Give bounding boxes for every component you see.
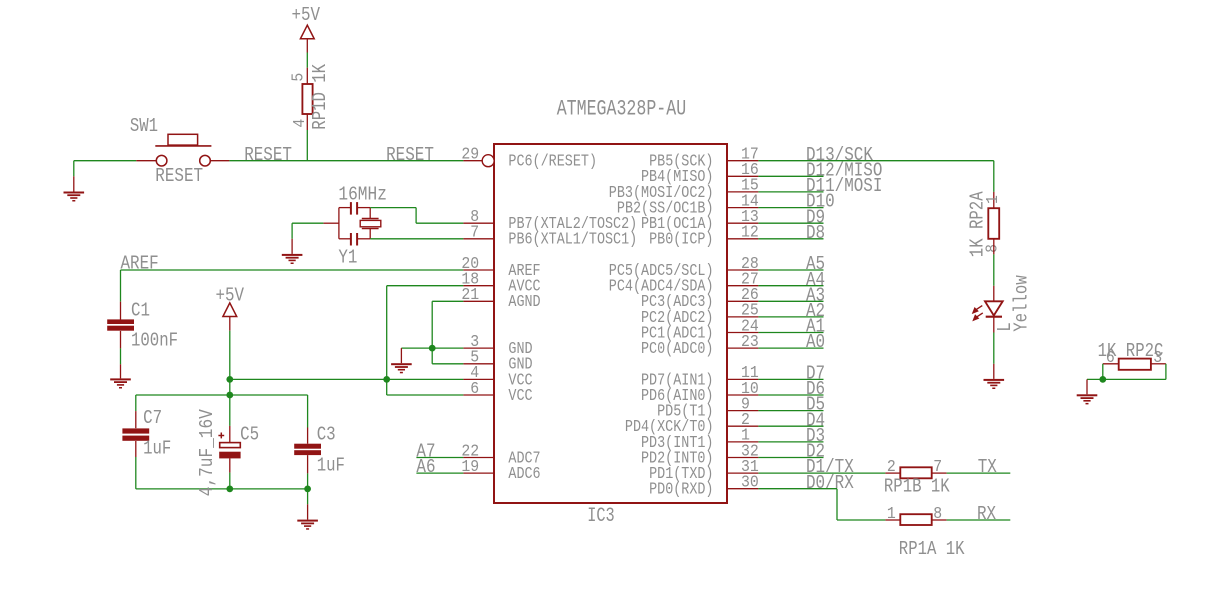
value 1uF (C7) <box>143 437 171 459</box>
ground pin (SW1) <box>73 176 75 191</box>
label RP1D 1K <box>309 63 331 129</box>
svg-text:PC6(/RESET): PC6(/RESET) <box>508 153 597 172</box>
net label D13/SCK <box>806 144 873 166</box>
pin number 5 of RP1D <box>290 73 309 82</box>
crystal Y1 ground stub <box>323 222 339 224</box>
pin name PB5(SCK) <box>649 153 713 172</box>
label ATMEGA328P-AU <box>557 97 687 122</box>
IC3 pin 23 stub (right) <box>727 347 758 349</box>
pin name PD3(INT1) <box>641 434 714 453</box>
junction +5V/cap rail <box>226 392 233 399</box>
pin number 4 <box>470 364 479 383</box>
value 1uF (C3) <box>317 455 345 477</box>
wire D13 corner down to RP2A <box>993 161 995 192</box>
svg-text:RESET: RESET <box>244 144 292 166</box>
svg-text:21: 21 <box>461 286 479 305</box>
wire net D2 <box>758 457 823 459</box>
switch SW1 right pin <box>210 160 229 162</box>
IC3 pin 21 stub (left) <box>463 300 494 302</box>
svg-text:AREF: AREF <box>121 252 159 274</box>
wire down to ground (crystal) <box>291 223 293 239</box>
wire cap-bottom left link <box>339 238 351 240</box>
wire cap-top left link <box>339 207 351 209</box>
wire C5 bottom <box>229 473 231 489</box>
pin number 5 <box>470 349 479 368</box>
resistor RP2A pin 1 stub <box>993 192 995 208</box>
wire crystal mid to ground corner <box>292 222 323 224</box>
svg-text:12: 12 <box>741 224 759 243</box>
net label A7 <box>416 441 435 463</box>
wire net D4 <box>758 425 823 427</box>
label Y1 <box>338 246 357 268</box>
pin name PB3(MOSI/OC2) <box>609 184 714 203</box>
svg-text:23: 23 <box>741 333 759 352</box>
label SW1 <box>130 115 158 137</box>
wire C3 junction to ground <box>307 489 309 504</box>
wire crystal top to corner <box>370 207 416 209</box>
ground pin (C1) <box>120 364 122 378</box>
switch SW1 left pin <box>136 160 156 162</box>
pin name PB1(OC1A) <box>641 215 714 234</box>
label +5V (RP1D) <box>292 4 321 26</box>
svg-text:PD0(RXD): PD0(RXD) <box>649 481 713 500</box>
wire cap bottom rail <box>136 488 308 490</box>
label +5V (VCC) <box>216 284 245 306</box>
label 1K RP2C <box>1098 340 1164 362</box>
net label A1 <box>806 316 825 338</box>
wire AVCC to IC pin 18 <box>387 285 464 287</box>
svg-text:8: 8 <box>933 505 942 524</box>
pin name PC0(ADC0) <box>641 340 714 359</box>
svg-text:D0/RX: D0/RX <box>806 472 854 494</box>
pin name PB6(XTAL1/TOSC1) <box>508 231 637 250</box>
label C7 <box>143 407 162 429</box>
ground pin (crystal) <box>291 239 293 254</box>
pin number 11 <box>741 364 759 383</box>
svg-text:1uF: 1uF <box>317 455 345 477</box>
IC3 pin 30 stub (right) <box>727 488 758 490</box>
net label D3 <box>806 425 825 447</box>
junction AGND/GND <box>429 345 436 352</box>
pin number 3 (RP2C) <box>1153 349 1162 368</box>
wire AREF to IC pin 20 <box>121 269 464 271</box>
svg-text:Y1: Y1 <box>338 246 357 268</box>
LED cathode bar <box>986 316 1002 318</box>
wire to IC pin 8 <box>416 222 463 224</box>
IC3 pin 4 stub (left) <box>463 378 494 380</box>
net label D2 <box>806 441 825 463</box>
svg-text:6: 6 <box>1106 349 1115 368</box>
junction AVCC/VCC rail <box>383 376 390 383</box>
resistor RP2C pin 6 stub <box>1103 363 1119 365</box>
pin number 1 (RP2A) <box>984 195 1003 204</box>
wire net D13/SCK <box>758 160 993 162</box>
svg-text:RESET: RESET <box>155 165 203 187</box>
IC3 pin 20 stub (left) <box>463 269 494 271</box>
net label D0/RX <box>806 472 854 494</box>
pin name PC2(ADC2) <box>641 309 714 328</box>
svg-text:+5V: +5V <box>216 284 245 306</box>
wire AREF corner down to C1 <box>120 270 122 302</box>
pin name PC4(ADC4/SDA) <box>609 278 714 297</box>
wire D0/RX corner down <box>836 489 838 520</box>
IC3 pin 19 stub (left) <box>463 472 494 474</box>
wire RP2C right vertical <box>1165 364 1167 380</box>
pin name PD6(AIN0) <box>641 387 714 406</box>
svg-text:SW1: SW1 <box>130 115 158 137</box>
pin name PB4(MISO) <box>641 168 714 187</box>
wire GND to IC pin 3 <box>401 347 463 349</box>
net label D12/MISO <box>806 159 882 181</box>
pin name PD2(INT0) <box>641 449 714 468</box>
wire A6 to IC pin 19 <box>416 472 463 474</box>
IC3 pin 1 stub (right) <box>727 441 758 443</box>
IC3 pin 29 stub (left) <box>463 160 482 162</box>
wire net A1 <box>758 332 823 334</box>
wire C1 to ground <box>120 348 122 364</box>
IC3 pin 8 stub (left) <box>463 222 494 224</box>
IC3 pin 18 stub (left) <box>463 285 494 287</box>
ground symbol (C3) <box>297 520 318 530</box>
pin name PD4(XCK/T0) <box>625 418 714 437</box>
net label RX <box>977 503 997 525</box>
pin number 20 <box>461 255 479 274</box>
ground symbol (SW1) <box>64 192 85 202</box>
net label D7 <box>806 363 825 385</box>
label C1 <box>131 299 150 321</box>
svg-text:30: 30 <box>741 474 759 493</box>
svg-text:16MHz: 16MHz <box>338 184 387 206</box>
wire RX row to RP1A <box>837 519 885 521</box>
net label D11/MOSI <box>806 175 882 197</box>
svg-text:1K RP2A: 1K RP2A <box>966 191 988 257</box>
IC3 pin 2 stub (right) <box>727 425 758 427</box>
wire net D6 <box>758 394 823 396</box>
IC3 pin 22 stub (left) <box>463 457 494 459</box>
IC3 pin 3 stub (left) <box>463 347 494 349</box>
ground pin (LED) <box>993 364 995 379</box>
pin number 30 <box>741 474 759 493</box>
wire SW1 to ground corner <box>74 160 136 162</box>
svg-text:1uF: 1uF <box>143 437 171 459</box>
crystal Y1 top lead <box>369 208 371 219</box>
LED arrows <box>973 306 983 321</box>
crystal Y1 bottom lead <box>369 229 371 239</box>
wire down to ground (SW1) <box>73 161 75 177</box>
net label TX <box>978 456 998 478</box>
resistor RP1A pin 8 stub <box>932 519 947 521</box>
pin name PC1(ADC1) <box>641 324 714 343</box>
resistor RP1B body <box>900 467 931 478</box>
svg-text:6: 6 <box>470 380 479 399</box>
pin name PD5(T1) <box>657 403 713 422</box>
IC3 pin 10 stub (right) <box>727 394 758 396</box>
label C5 <box>240 424 259 446</box>
wire RP2C left vertical <box>1102 364 1104 380</box>
IC3 pin 12 stub (right) <box>727 238 758 240</box>
junction C5 bottom <box>226 486 233 493</box>
resistor RP1A pin 1 stub <box>885 519 900 521</box>
junction C3 bottom <box>304 486 311 493</box>
pin name GND <box>508 340 532 359</box>
svg-text:+5V: +5V <box>292 4 321 26</box>
label IC3 <box>587 505 615 528</box>
pin number 32 <box>741 442 759 461</box>
pin number 15 <box>741 177 759 196</box>
capacitor C1 bottom pin <box>120 331 122 349</box>
wire net D12/MISO <box>758 175 823 177</box>
svg-text:D8: D8 <box>806 222 825 244</box>
pin name PC3(ADC3) <box>641 293 714 312</box>
wire AGND vertical <box>431 301 433 364</box>
value 100nF <box>131 329 178 351</box>
pin number 9 <box>741 395 750 414</box>
wire AVCC vertical <box>386 286 388 395</box>
ground pin (RP2C) <box>1086 379 1088 394</box>
net label A3 <box>806 284 825 306</box>
net label D1/TX <box>806 456 854 478</box>
wire C3 top drop <box>307 395 309 428</box>
svg-text:AGND: AGND <box>508 293 540 312</box>
pin number 2 <box>741 411 750 430</box>
svg-text:RESET: RESET <box>386 144 434 166</box>
crystal left bus vertical <box>338 208 340 239</box>
svg-text:RP1D 1K: RP1D 1K <box>309 63 331 129</box>
pin number 2 (RP1B) <box>887 458 896 477</box>
net label D4 <box>806 409 825 431</box>
svg-text:RX: RX <box>977 503 997 525</box>
resistor RP2A pin 8 stub <box>993 239 995 255</box>
svg-text:7: 7 <box>933 458 942 477</box>
pin number 25 <box>741 302 759 321</box>
wire crystal bottom to IC pin 7 <box>370 238 463 240</box>
label RESET (SW1 value) <box>155 165 203 187</box>
capacitor C3 <box>294 444 321 455</box>
svg-text:29: 29 <box>461 146 479 165</box>
pin number 22 <box>461 442 479 461</box>
svg-text:2: 2 <box>887 458 896 477</box>
pin number 31 <box>741 458 759 477</box>
LED cathode pin <box>993 317 995 333</box>
ground symbol (C1) <box>110 378 131 388</box>
svg-text:PC0(ADC0): PC0(ADC0) <box>641 340 714 359</box>
pin number 1 (RP1A) <box>887 505 896 524</box>
IC3 pin 5 stub (left) <box>463 363 494 365</box>
label RP1A 1K <box>899 538 965 560</box>
pin number 29 <box>461 146 479 165</box>
resistor RP1A body <box>900 514 931 525</box>
pin number 24 <box>741 317 759 336</box>
net label A4 <box>806 269 825 291</box>
svg-text:IC3: IC3 <box>587 505 615 528</box>
capacitor C7 top pin <box>135 411 137 428</box>
capacitor C5 top pin <box>229 426 231 443</box>
junction +5V/VCC rail <box>226 376 233 383</box>
wire net D8 <box>758 238 823 240</box>
resistor RP1B pin 2 stub <box>885 472 900 474</box>
pin number 28 <box>741 255 759 274</box>
svg-text:RP1A 1K: RP1A 1K <box>899 538 965 560</box>
wire RESET net to IC pin 29 <box>229 160 463 162</box>
wire TX net <box>947 472 1011 474</box>
switch SW1 actuator <box>155 134 211 146</box>
pin number 12 <box>741 224 759 243</box>
resistor RP1D pin 4 stub <box>306 114 308 130</box>
wire net A0 <box>758 347 823 349</box>
pin name ADC7 <box>508 449 540 468</box>
svg-text:7: 7 <box>470 224 479 243</box>
resistor RP1B pin 7 stub <box>932 472 947 474</box>
svg-text:C5: C5 <box>240 424 259 446</box>
net label D10 <box>806 191 835 213</box>
LED L (Yellow) triangle <box>985 301 1003 315</box>
svg-text:C3: C3 <box>317 424 336 446</box>
svg-text:4,7uF_16V: 4,7uF_16V <box>196 409 218 497</box>
svg-text:ADC6: ADC6 <box>508 465 540 484</box>
wire net D1/TX <box>758 472 885 474</box>
IC3 pin 24 stub (right) <box>727 332 758 334</box>
pin number 6 <box>470 380 479 399</box>
pin number 14 <box>741 192 759 211</box>
wire RP2A to LED <box>993 254 995 285</box>
IC3 pin 14 stub (right) <box>727 207 758 209</box>
IC3 pin 25 stub (right) <box>727 316 758 318</box>
wire cap-bottom right link <box>357 238 370 240</box>
svg-text:C7: C7 <box>143 407 162 429</box>
pin name PC6(/RESET) <box>508 153 597 172</box>
svg-text:3: 3 <box>1153 349 1162 368</box>
wire net D3 <box>758 441 823 443</box>
svg-text:A0: A0 <box>806 331 825 353</box>
pin number 26 <box>741 286 759 305</box>
net label RESET (left) <box>244 144 292 166</box>
pin name VCC <box>508 387 532 406</box>
pin number 8 (RP1A) <box>933 505 942 524</box>
net label A0 <box>806 331 825 353</box>
wire GND to IC pin 5 <box>432 363 463 365</box>
load capacitor top (plates) <box>351 202 357 215</box>
pin name PD7(AIN1) <box>641 371 714 390</box>
IC3 pin 15 stub (right) <box>727 191 758 193</box>
wire AGND to IC pin 21 <box>432 300 463 302</box>
svg-text:C1: C1 <box>131 299 150 321</box>
pin name PB0(ICP) <box>649 231 713 250</box>
pin number 6 (RP2C) <box>1106 349 1115 368</box>
ground symbol (LED) <box>984 379 1005 389</box>
label C3 <box>317 424 336 446</box>
pin name PD0(RXD) <box>649 481 713 500</box>
svg-text:1: 1 <box>887 505 896 524</box>
IC3 pin 17 stub (right) <box>727 160 758 162</box>
IC3 pin 6 stub (left) <box>463 394 494 396</box>
wire RP2C bottom rail <box>1087 378 1166 380</box>
pin name PB7(XTAL2/TOSC2) <box>508 215 637 234</box>
net label A2 <box>806 300 825 322</box>
pin number 10 <box>741 380 759 399</box>
pin name AREF <box>508 262 540 281</box>
pin name PD1(TXD) <box>649 465 713 484</box>
resistor RP2C pin 3 stub <box>1151 363 1166 365</box>
wire C3 bottom <box>307 473 309 489</box>
IC3 pin 31 stub (right) <box>727 472 758 474</box>
ground pin (C3) <box>307 504 309 519</box>
pin name AGND <box>508 293 540 312</box>
svg-text:19: 19 <box>461 458 479 477</box>
svg-text:TX: TX <box>978 456 998 478</box>
IC3 pin 29 inverting bubble <box>482 155 494 167</box>
pin name PC5(ADC5/SCL) <box>609 262 714 281</box>
ground symbol (crystal) <box>282 254 303 264</box>
resistor RP1D body <box>302 84 312 114</box>
pin number 7 <box>470 224 479 243</box>
wire net D5 <box>758 410 823 412</box>
net label AREF <box>121 252 159 274</box>
pin number 27 <box>741 271 759 290</box>
pin number 3 <box>470 333 479 352</box>
pin name AVCC <box>508 278 540 297</box>
wire cap-top right link <box>357 207 370 209</box>
label RP1B 1K <box>884 475 950 497</box>
wire net A4 <box>758 285 823 287</box>
pin number 8 (RP2A) <box>983 244 1002 253</box>
svg-text:RP1B 1K: RP1B 1K <box>884 475 950 497</box>
wire VCC rail to IC pin 4 <box>230 378 464 380</box>
net label D6 <box>806 378 825 400</box>
capacitor C5 (polarized) <box>218 433 240 459</box>
capacitor C7 <box>122 428 149 440</box>
svg-text:Yellow: Yellow <box>1011 275 1033 332</box>
value 4,7uF_16V (C5) <box>196 409 218 497</box>
pin number 17 <box>741 146 759 165</box>
switch SW1 right contact <box>200 155 211 166</box>
capacitor C1 <box>107 319 134 330</box>
pin name PB2(SS/OC1B) <box>617 200 714 219</box>
load capacitor bottom (plates) <box>351 233 357 246</box>
IC U-IC3 ATMEGA328P-AU body <box>494 144 727 503</box>
label Yellow (LED) <box>1011 275 1033 332</box>
switch SW1 left contact <box>156 155 167 166</box>
pin number 13 <box>741 208 759 227</box>
svg-text:100nF: 100nF <box>131 329 178 351</box>
IC3 pin 32 stub (right) <box>727 457 758 459</box>
wire net A3 <box>758 300 823 302</box>
IC3 pin 7 stub (left) <box>463 238 494 240</box>
wire RP1D pin4 down to RESET net <box>306 130 308 161</box>
capacitor C7 bottom pin <box>135 441 137 457</box>
wire LED to ground <box>993 333 995 364</box>
resistor RP1D pin 5 stub <box>306 68 308 84</box>
wire cap top rail <box>136 394 308 396</box>
wire +5V to RP1D pin5 <box>306 53 308 68</box>
net label A5 <box>806 253 825 275</box>
pin number 7 (RP1B) <box>933 458 942 477</box>
svg-text:5: 5 <box>290 73 309 82</box>
pin number 16 <box>741 161 759 180</box>
wire net D9 <box>758 222 823 224</box>
IC3 pin 26 stub (right) <box>727 300 758 302</box>
resistor RP2C body <box>1119 359 1151 370</box>
wire net D7 <box>758 378 823 380</box>
pin number 19 <box>461 458 479 477</box>
wire C7 bottom <box>135 457 137 489</box>
wire +5V down to C5 <box>229 331 231 426</box>
net label D9 <box>806 206 825 228</box>
wire net A2 <box>758 316 823 318</box>
ground symbol (GND3) <box>391 363 412 373</box>
pin number 1 <box>741 427 750 446</box>
wire VCC to IC pin 6 <box>387 394 464 396</box>
IC3 pin 27 stub (right) <box>727 285 758 287</box>
